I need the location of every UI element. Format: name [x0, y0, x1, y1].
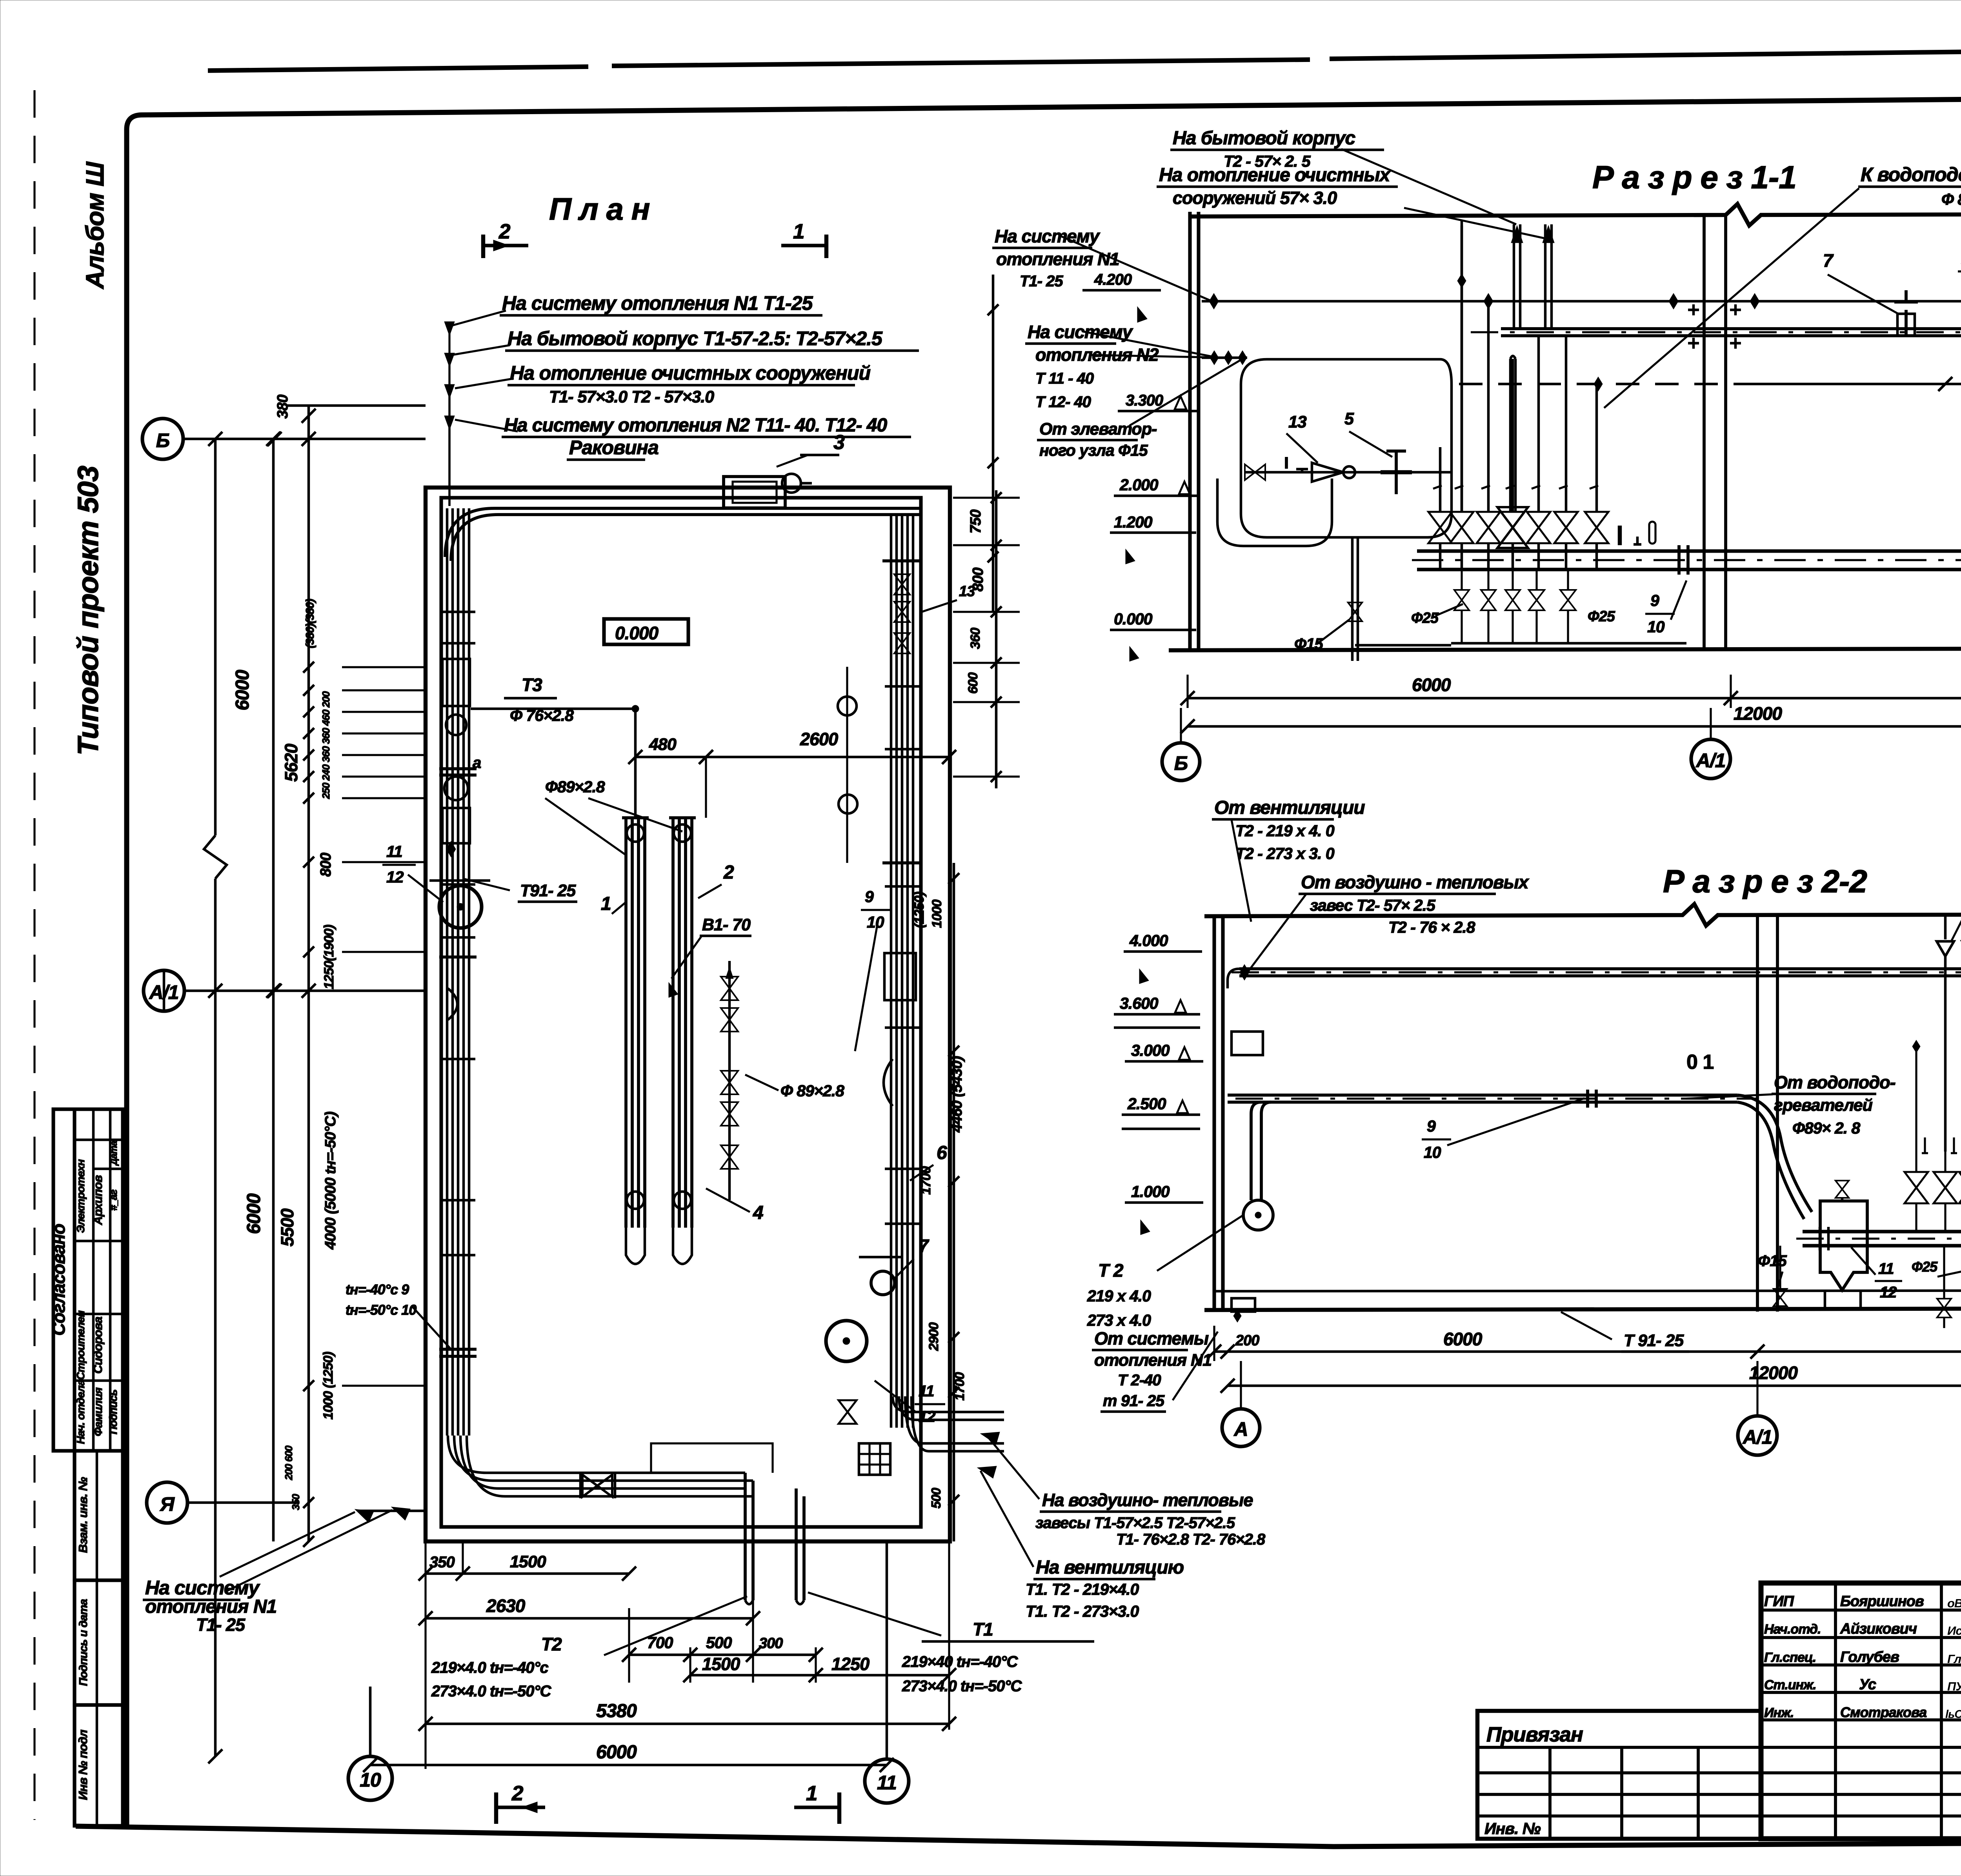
svg-text:завес Т2- 57× 2.5: завес Т2- 57× 2.5 — [1310, 896, 1436, 914]
svg-text:6000: 6000 — [1443, 1329, 1483, 1349]
svg-text:Смотракова: Смотракова — [1840, 1704, 1926, 1720]
svg-text:Р а з р е з 2-2: Р а з р е з 2-2 — [1663, 864, 1867, 899]
svg-text:3: 3 — [833, 431, 845, 454]
svg-text:Ус: Ус — [1859, 1676, 1876, 1693]
s22 S-pipe — [1228, 1094, 1737, 1097]
svg-text:Нач. отдела: Нач. отдела — [75, 1380, 87, 1444]
svg-text:4000 (5000 tн=-50°C): 4000 (5000 tн=-50°C) — [322, 1112, 339, 1250]
svg-text:250 240 360 360 460 200: 250 240 360 360 460 200 — [320, 691, 332, 799]
svg-text:Т 2-40: Т 2-40 — [1118, 1372, 1161, 1389]
grid circle B — [142, 419, 183, 459]
s22 T2 riser circle — [1251, 1102, 1261, 1200]
s22 wall box left — [1232, 1032, 1263, 1055]
svg-text:Т2 - 76 × 2.8: Т2 - 76 × 2.8 — [1388, 918, 1475, 936]
grid circle 10 — [348, 1756, 392, 1800]
svg-text:1250(1900): 1250(1900) — [322, 924, 337, 989]
svg-text:сооружений 57× 3.0: сооружений 57× 3.0 — [1173, 188, 1337, 208]
s11 grid circle B — [1162, 743, 1200, 781]
plan left dimension line 6000 — [214, 439, 217, 835]
svg-text:Айзикович: Айзикович — [1840, 1621, 1917, 1637]
svg-text:13: 13 — [959, 583, 975, 600]
s22 corner mark — [1232, 1298, 1255, 1312]
svg-text:ГИП: ГИП — [1764, 1593, 1794, 1610]
plan bottom right pipe exits — [893, 1396, 1004, 1412]
svg-text:Т 11 - 40: Т 11 - 40 — [1035, 370, 1094, 387]
svg-text:Нач.отд.: Нач.отд. — [1764, 1622, 1821, 1637]
svg-text:273×4.0 tн=-50°С: 273×4.0 tн=-50°С — [902, 1678, 1022, 1695]
right bundle cross ticks — [885, 685, 919, 688]
svg-text:Инв. №: Инв. № — [1484, 1820, 1541, 1838]
svg-text:4.200: 4.200 — [1094, 271, 1132, 288]
s22 floor — [1204, 1308, 1961, 1310]
svg-text:Ф25: Ф25 — [1411, 610, 1439, 626]
T3 pipe to risers — [471, 708, 635, 710]
svg-text:Ф 89×2.8: Ф 89×2.8 — [780, 1082, 844, 1100]
svg-text:От системы: От системы — [1094, 1328, 1209, 1348]
svg-text:9: 9 — [1650, 591, 1659, 610]
plan top pipes exit arrows — [444, 322, 455, 336]
s11 tee item7 — [1905, 310, 1908, 336]
elevation 0.000 box — [604, 619, 688, 644]
s11 elevator chain — [1244, 471, 1451, 474]
svg-text:На воздушно- тепловые: На воздушно- тепловые — [1042, 1490, 1253, 1510]
s22 dim line — [1214, 1350, 1961, 1353]
personnel table — [1834, 1583, 1837, 1839]
plan top interior pipes — [445, 508, 920, 557]
s11 pipe 4.200 line — [1202, 300, 1961, 303]
svg-text:200 600: 200 600 — [283, 1445, 295, 1481]
svg-text:От воздушно - тепловых: От воздушно - тепловых — [1301, 872, 1530, 892]
s22 valve cluster — [1915, 1046, 1917, 1172]
s22 upper pipe — [1239, 967, 1961, 970]
s11 dim line — [1188, 697, 1961, 700]
s11 drain pipe — [1351, 537, 1354, 661]
plan bottom-left corner arrows — [355, 1509, 374, 1523]
grid line 11 — [886, 1541, 888, 1759]
svg-text:12: 12 — [1880, 1284, 1897, 1301]
svg-text:Ф25: Ф25 — [1912, 1259, 1938, 1275]
svg-text:На систему отопления N1 Т1-: На систему отопления N1 Т1-25 — [502, 292, 813, 314]
s22 tank — [1835, 1181, 1849, 1198]
svg-text:9: 9 — [865, 888, 874, 906]
svg-text:Ф89×2.8: Ф89×2.8 — [545, 778, 605, 796]
svg-text:На систему: На систему — [995, 226, 1101, 246]
svg-text:219×40 tн=-40°С: 219×40 tн=-40°С — [902, 1653, 1018, 1670]
grid line A1 — [184, 990, 426, 992]
svg-text:1700: 1700 — [919, 1166, 933, 1195]
svg-text:10: 10 — [1647, 618, 1665, 636]
s11 riser tall left — [1461, 220, 1463, 511]
svg-text:300: 300 — [759, 1635, 783, 1652]
svg-text:а: а — [473, 754, 481, 772]
svg-text:350: 350 — [290, 1494, 302, 1510]
svg-text:Альбом Ш: Альбом Ш — [81, 161, 109, 289]
plan 3rd dimension chain — [307, 406, 310, 1541]
svg-text:tн=-50°с 10: tн=-50°с 10 — [346, 1302, 417, 1318]
svg-text:0.000: 0.000 — [1114, 610, 1153, 628]
svg-text:6000: 6000 — [1412, 675, 1451, 695]
svg-text:600: 600 — [966, 672, 980, 694]
svg-text:От водоподо-: От водоподо- — [1774, 1072, 1896, 1092]
svg-text:Т2: Т2 — [541, 1634, 562, 1654]
svg-text:На бытовой корпус: На бытовой корпус — [1173, 128, 1355, 149]
svg-text:12: 12 — [919, 1408, 935, 1425]
svg-text:На отопление очистных соору: На отопление очистных сооружений — [510, 362, 870, 384]
dim 6000 bottom — [370, 1764, 887, 1767]
svg-text:2600: 2600 — [800, 729, 838, 749]
svg-text:Т2 - 273 х 3. 0: Т2 - 273 х 3. 0 — [1235, 844, 1335, 862]
plan room inner wall — [441, 498, 921, 1527]
svg-text:Т3: Т3 — [522, 675, 542, 695]
plan right dim ladder lower — [953, 863, 955, 1541]
sink plan symbol — [724, 477, 785, 508]
s11 corner brackets — [1688, 309, 1699, 311]
svg-text:#_аг: #_аг — [107, 1189, 119, 1210]
svg-text:ПУс: ПУс — [1947, 1679, 1961, 1693]
s11 under-floor pipe — [1451, 642, 1686, 645]
svg-text:4460 (5430): 4460 (5430) — [949, 1056, 965, 1133]
s11 sink under elevator — [1217, 479, 1332, 546]
svg-text:Т1- 57×3.0 Т2 - 57×3.: Т1- 57×3.0 Т2 - 57×3.0 — [549, 388, 714, 406]
left bundle cross ticks — [441, 611, 475, 613]
s11 grid circle A1 — [1691, 739, 1730, 779]
svg-text:(1250): (1250) — [912, 892, 927, 928]
svg-text:2: 2 — [723, 862, 734, 883]
svg-text:5620: 5620 — [281, 744, 301, 782]
svg-text:П л а н: П л а н — [549, 191, 650, 226]
svg-text:10: 10 — [360, 1769, 381, 1791]
s11 ceiling — [1190, 204, 1961, 226]
section cut mark 1 bottom — [837, 1792, 841, 1824]
svg-text:В1- 70: В1- 70 — [702, 915, 751, 934]
svg-text:Архипов: Архипов — [91, 1175, 105, 1226]
svg-text:А/1: А/1 — [1695, 750, 1726, 772]
grid circle A1 — [144, 970, 184, 1011]
svg-text:Б: Б — [1174, 752, 1188, 774]
s11 risers to ceiling — [1513, 224, 1515, 329]
svg-text:гревателей: гревателей — [1774, 1096, 1873, 1115]
svg-text:1: 1 — [793, 220, 804, 243]
right bundle fittings top — [882, 559, 920, 562]
svg-text:1000 (1250): 1000 (1250) — [321, 1352, 336, 1419]
svg-text:Т2 - 219 х 4. 0: Т2 - 219 х 4. 0 — [1235, 822, 1335, 840]
s11 cross valve item5 — [1395, 451, 1398, 494]
svg-text:Подпись: Подпись — [107, 1390, 119, 1434]
svg-text:tн=-40°с 9: tн=-40°с 9 — [346, 1281, 409, 1297]
svg-text:4.000: 4.000 — [1129, 932, 1168, 950]
svg-text:Т1- 25: Т1- 25 — [196, 1615, 246, 1635]
svg-text:Строителен: Строителен — [75, 1310, 87, 1380]
svg-text:Я: Я — [159, 1493, 175, 1515]
s11 manifold flange — [1677, 545, 1681, 575]
dim 5380 — [426, 1723, 949, 1725]
svg-text:360: 360 — [968, 628, 983, 649]
dim 700 500 300 — [629, 1654, 816, 1656]
svg-text:Ф25: Ф25 — [1588, 608, 1615, 625]
svg-text:1500: 1500 — [510, 1552, 546, 1571]
svg-text:завесы Т1-57×2.5 Т2-57×2.5: завесы Т1-57×2.5 Т2-57×2.5 — [1035, 1514, 1235, 1532]
svg-text:2.500: 2.500 — [1127, 1095, 1166, 1113]
svg-text:Т 91- 25: Т 91- 25 — [1624, 1331, 1684, 1350]
plan room outer wall — [426, 488, 950, 1541]
svg-text:Ф89× 2. 8: Ф89× 2. 8 — [1792, 1119, 1861, 1137]
left margin attribute table — [53, 1109, 123, 1451]
svg-text:5380: 5380 — [596, 1701, 637, 1721]
svg-text:800: 800 — [318, 853, 334, 877]
svg-text:А/1: А/1 — [1742, 1426, 1772, 1448]
mid manifold valves — [728, 961, 731, 1200]
svg-text:10: 10 — [867, 913, 884, 931]
svg-text:1250: 1250 — [831, 1654, 870, 1674]
svg-text:Инж.: Инж. — [1764, 1705, 1794, 1720]
svg-text:9: 9 — [1427, 1117, 1436, 1135]
svg-text:Ф15: Ф15 — [1758, 1252, 1787, 1270]
svg-text:3.600: 3.600 — [1120, 994, 1159, 1012]
svg-text:Фамилия: Фамилия — [92, 1387, 105, 1436]
s22 ceiling — [1204, 904, 1961, 926]
svg-text:отопления N1: отопления N1 — [145, 1596, 277, 1617]
grid line B — [183, 438, 426, 440]
plan right pipe bundle — [890, 515, 893, 1428]
svg-text:Т1. Т2 - 219×4.0: Т1. Т2 - 219×4.0 — [1026, 1580, 1139, 1598]
s11 elevator enclosure — [1241, 359, 1452, 537]
right bundle valve bottom — [839, 1400, 857, 1424]
s11 3.300 node diamonds — [1210, 351, 1219, 365]
s22 S-pipe flange — [1586, 1090, 1589, 1108]
svg-text:1.000: 1.000 — [1131, 1183, 1170, 1201]
svg-text:6000: 6000 — [596, 1742, 637, 1763]
svg-text:Ф 89× 2.8: Ф 89× 2.8 — [1941, 190, 1961, 208]
plan bottom dims — [424, 1541, 426, 1769]
svg-text:Раковина: Раковина — [569, 437, 659, 459]
grid line A — [187, 1501, 298, 1504]
svg-text:10: 10 — [1424, 1143, 1441, 1161]
svg-text:200: 200 — [1235, 1332, 1259, 1349]
svg-text:т 91- 25: т 91- 25 — [1103, 1392, 1165, 1410]
dim 1500 1250 — [690, 1674, 949, 1677]
svg-text:На систему: На систему — [145, 1577, 260, 1599]
svg-text:5: 5 — [1344, 409, 1354, 428]
svg-text:273 х 4.0: 273 х 4.0 — [1087, 1311, 1151, 1329]
svg-text:6000: 6000 — [232, 670, 253, 710]
grid line 10 — [369, 1687, 372, 1756]
section cut mark 1 top — [824, 235, 828, 258]
svg-text:Ф15: Ф15 — [1294, 635, 1323, 653]
svg-text:3.300: 3.300 — [1126, 392, 1163, 409]
plan floor pit outline — [651, 1443, 773, 1473]
svg-text:От элеватор-: От элеватор- — [1039, 420, 1157, 439]
s22 left wall — [1212, 915, 1216, 1312]
s11 dim line 12000 — [1188, 725, 1961, 728]
svg-text:3.000: 3.000 — [1131, 1041, 1170, 1059]
svg-text:Электротехн: Электротехн — [75, 1159, 87, 1233]
svg-text:lьОй: lьОй — [1945, 1708, 1961, 1721]
svg-text:Ф 76×2.8: Ф 76×2.8 — [510, 706, 574, 724]
plan bottom gate valve — [582, 1475, 612, 1497]
s11 left dim boundary — [992, 275, 995, 612]
grid circle 11 — [865, 1759, 909, 1803]
svg-text:Гл.спец.: Гл.спец. — [1764, 1650, 1816, 1665]
section cut mark 2 bottom — [494, 1792, 498, 1824]
svg-text:Инв № подл: Инв № подл — [76, 1730, 90, 1800]
s22 grid circle A — [1222, 1409, 1260, 1447]
svg-text:отопления N1: отопления N1 — [996, 249, 1119, 269]
svg-text:Т91- 25: Т91- 25 — [520, 881, 576, 900]
plan right dim ladder upper — [995, 490, 998, 788]
svg-text:oВgш: oВgш — [1947, 1596, 1961, 1610]
svg-text:1.200: 1.200 — [1114, 513, 1153, 531]
s11 middle column — [1703, 215, 1706, 649]
svg-text:Б: Б — [156, 429, 169, 451]
svg-text:На вентиляцию: На вентиляцию — [1036, 1557, 1184, 1578]
s11 left wall — [1188, 212, 1192, 650]
svg-text:2900: 2900 — [926, 1322, 941, 1351]
svg-text:11: 11 — [877, 1772, 897, 1794]
svg-text:11: 11 — [386, 842, 402, 861]
svg-text:Сидорова: Сидорова — [91, 1317, 105, 1374]
svg-text:1500: 1500 — [702, 1654, 740, 1674]
left bundle lower fittings — [439, 955, 477, 959]
svg-text:(380)(380): (380)(380) — [304, 599, 317, 648]
dim 480 2600 — [635, 756, 949, 759]
plan 2nd dimension line 5620 5500 — [272, 439, 275, 1541]
svg-text:13: 13 — [1288, 413, 1307, 431]
svg-text:К водоподогревателям: К водоподогревателям — [1861, 164, 1961, 186]
s22 ceiling drops — [1944, 915, 1947, 939]
s22 manifold — [1803, 1230, 1961, 1233]
s22 small valves under manifold — [1943, 1246, 1945, 1298]
svg-text:Т 12- 40: Т 12- 40 — [1035, 393, 1091, 411]
svg-text:2.000: 2.000 — [1119, 476, 1159, 494]
s11 valve bank — [1439, 447, 1442, 511]
svg-text:273×4.0 tн=-50°С: 273×4.0 tн=-50°С — [431, 1683, 551, 1700]
svg-text:Согласовано: Согласовано — [49, 1224, 69, 1336]
svg-text:Типовой проект 503: Типовой проект 503 — [72, 466, 104, 755]
plan bottom-left pipe exits — [448, 1436, 745, 1473]
svg-text:Т1- 76×2.8 Т2- 76×2.8: Т1- 76×2.8 Т2- 76×2.8 — [1116, 1531, 1266, 1548]
svg-text:7: 7 — [1823, 250, 1834, 271]
leader lines to top labels — [452, 311, 506, 326]
outer left dashed border — [33, 90, 35, 1820]
dim 2630 — [426, 1617, 753, 1620]
svg-text:Р а з р е з 1-1: Р а з р е з 1-1 — [1592, 160, 1796, 195]
svg-text:Т1. Т2 - 273×3.0: Т1. Т2 - 273×3.0 — [1026, 1602, 1139, 1620]
svg-text:11: 11 — [919, 1383, 934, 1400]
svg-text:1700: 1700 — [952, 1372, 967, 1401]
section cut mark 2 top — [481, 235, 485, 258]
s22 floor top slab line — [1216, 1290, 1961, 1291]
svg-text:1: 1 — [806, 1782, 817, 1805]
svg-text:Ст.инж.: Ст.инж. — [1764, 1678, 1816, 1692]
dimension ladder ticks — [342, 666, 426, 668]
sheet top edge line — [208, 67, 588, 71]
floor grate plan — [859, 1443, 890, 1475]
svg-text:12000: 12000 — [1734, 703, 1782, 724]
svg-text:Подпись и дата: Подпись и дата — [77, 1599, 90, 1686]
svg-text:6: 6 — [937, 1143, 947, 1163]
svg-text:На отопление очистных: На отопление очистных — [1159, 165, 1391, 186]
svg-text:2630: 2630 — [486, 1596, 526, 1616]
svg-text:Т 2: Т 2 — [1098, 1260, 1124, 1281]
svg-text:12: 12 — [386, 868, 404, 886]
svg-text:480: 480 — [649, 735, 677, 754]
dim 350 1500 — [426, 1572, 629, 1575]
plan left pipe bundle — [446, 508, 449, 1436]
svg-text:Т1- 25: Т1- 25 — [1020, 273, 1063, 290]
s11 riser cap — [1509, 359, 1512, 511]
s11 manifold pipe — [1417, 549, 1961, 553]
svg-text:350: 350 — [429, 1554, 455, 1571]
left bundle fittings — [439, 767, 477, 770]
svg-text:На бытовой корпус Т1-57-2.5: На бытовой корпус Т1-57-2.5: Т2-57×2.5 — [508, 328, 883, 349]
left margin lower boxes — [75, 1451, 123, 1580]
s11 small valves under manifold — [1461, 570, 1463, 590]
svg-text:500: 500 — [929, 1487, 943, 1508]
s22 dim line 12000 — [1228, 1385, 1961, 1387]
s11 dashed line 979 — [1459, 383, 1745, 386]
svg-text:11: 11 — [1878, 1260, 1894, 1277]
s22 grid circle A1 — [1738, 1416, 1777, 1455]
svg-text:Взам. инв. №: Взам. инв. № — [76, 1477, 90, 1553]
s11 upper pipe — [1501, 327, 1961, 330]
s11 floor — [1169, 648, 1961, 650]
svg-text:500: 500 — [706, 1634, 732, 1652]
title block outer box — [1761, 1583, 1961, 1839]
svg-text:4: 4 — [753, 1203, 763, 1223]
pump 11 12 plan — [439, 886, 482, 928]
frame bottom line — [76, 1826, 1961, 1847]
svg-text:Привязан: Привязан — [1486, 1723, 1583, 1746]
svg-text:От вентиляции: От вентиляции — [1214, 797, 1365, 818]
svg-text:5500: 5500 — [277, 1208, 297, 1246]
svg-text:Исль: Исль — [1947, 1624, 1961, 1638]
svg-text:Голубев: Голубев — [1840, 1649, 1899, 1665]
svg-text:ного узла Ф15: ного узла Ф15 — [1039, 441, 1148, 459]
svg-text:Т1: Т1 — [973, 1619, 993, 1639]
svg-text:2: 2 — [511, 1782, 523, 1805]
svg-text:219 х 4.0: 219 х 4.0 — [1087, 1287, 1151, 1305]
right pump plan — [826, 1321, 867, 1361]
svg-text:0.000: 0.000 — [615, 623, 659, 643]
svg-text:0 1: 0 1 — [1686, 1051, 1714, 1074]
svg-text:Бояршинов: Бояршинов — [1840, 1593, 1924, 1610]
pривязан table — [1477, 1711, 1761, 1839]
svg-text:219×4.0 tн=-40°с: 219×4.0 tн=-40°с — [431, 1659, 548, 1676]
s22 middle column — [1756, 915, 1759, 1312]
svg-text:Дата: Дата — [109, 1141, 119, 1166]
svg-text:1: 1 — [601, 893, 611, 914]
svg-text:2: 2 — [498, 220, 510, 243]
central risers T3 — [624, 818, 628, 1228]
svg-text:1000: 1000 — [930, 899, 944, 928]
svg-text:7: 7 — [919, 1236, 930, 1256]
s11 thermometer symbols — [1618, 526, 1622, 545]
plan bottom exit stubs — [744, 1473, 747, 1600]
svg-text:На систему отопления N2 Т11-: На систему отопления N2 Т11- 40. Т12- 40 — [504, 415, 887, 436]
svg-text:750: 750 — [968, 509, 984, 533]
right bundle mid fittings — [884, 953, 916, 1000]
svg-text:А: А — [1233, 1418, 1248, 1440]
svg-text:Глб: Глб — [1947, 1652, 1961, 1666]
svg-text:6000: 6000 — [244, 1193, 264, 1234]
grid circle A — [147, 1482, 187, 1523]
